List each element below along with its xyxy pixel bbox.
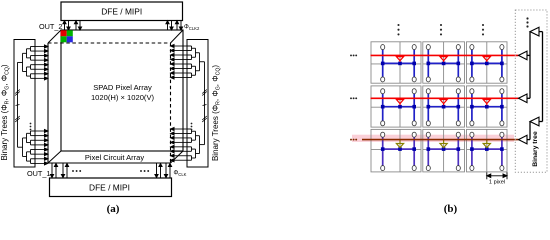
wire left clock line 3 (bottom group) bbox=[35, 139, 48, 142]
svg-text:OUT_2: OUT_2 bbox=[39, 22, 63, 31]
pixel cell r1c3 border bbox=[467, 42, 508, 83]
binary tree group left-bottom bbox=[23, 131, 36, 163]
wire right clock line 6 (top group) bbox=[171, 67, 188, 70]
wire right clock line 4 (bottom group) bbox=[171, 141, 188, 144]
ellipsis column vdots x=441 bbox=[440, 24, 442, 36]
transistor/driver pixel r2c2 triangle bbox=[440, 98, 447, 105]
svg-text:Binary Trees (ΦR, ΦG, ΦCQ): Binary Trees (ΦR, ΦG, ΦCQ) bbox=[211, 65, 222, 161]
wire pixel r1c2 SPAD cathode lines (blue) bbox=[428, 49, 458, 77]
block top DFE/MIPI bbox=[61, 2, 183, 21]
wire pixel r2c2 SPAD cathode lines (blue) bbox=[428, 93, 458, 121]
pixel cell r3c3 border bbox=[467, 129, 508, 172]
wire branch A output to row1/row2 buffers bbox=[527, 32, 530, 99]
wire top-left pair2 up/down arrow pair bbox=[74, 21, 81, 30]
ellipsis left box vdots bbox=[30, 123, 32, 131]
node right trunk break marks bbox=[202, 90, 207, 123]
wire right clock line 8 (top group) bbox=[171, 76, 188, 79]
pixel cell r3c1 border bbox=[371, 129, 421, 172]
wire left clock line 5 (bottom group) bbox=[35, 148, 48, 151]
wire right clock line 2 (top group) bbox=[171, 49, 188, 52]
node pixel r1c3 SPAD terminals (circles) bbox=[470, 45, 504, 82]
wire right clock line 6 (bottom group) bbox=[171, 150, 188, 153]
wire left clock line 6 (bottom group) bbox=[35, 153, 48, 156]
wire branch B output to row3 buffer bbox=[527, 122, 530, 140]
pixel cell r2c3 border bbox=[467, 86, 508, 127]
wire right clock line 1 (bottom group) bbox=[171, 127, 188, 130]
transistor/driver pixel r3c3 triangle bbox=[483, 140, 490, 148]
svg-text:SPAD Pixel Array: SPAD Pixel Array bbox=[93, 83, 152, 92]
wire left tree trunk bbox=[18, 62, 23, 147]
wire left clock line 4 (top group) bbox=[35, 59, 48, 62]
block top wafer SPAD array bbox=[61, 30, 183, 151]
wire right clock line 3 (bottom group) bbox=[171, 136, 188, 139]
svg-text:OUT_1: OUT_1 bbox=[27, 169, 51, 178]
wire left clock line 7 (bottom group) bbox=[35, 157, 48, 160]
svg-text:DFE / MIPI: DFE / MIPI bbox=[89, 182, 130, 192]
block left Binary Trees box bbox=[14, 40, 35, 168]
wire right clock line 1 (top group) bbox=[171, 44, 188, 47]
wire pixel r2c3 SPAD cathode lines (blue) bbox=[472, 93, 502, 121]
svg-text:(a): (a) bbox=[107, 203, 120, 215]
pixel cell r1c2 border bbox=[423, 42, 465, 83]
wire tree trunk vertical bbox=[539, 32, 543, 122]
wire right clock line 3 (top group) bbox=[171, 53, 188, 56]
pixel cell r1c1 border bbox=[371, 42, 421, 83]
wire top-right pair2 up/down arrow pair bbox=[175, 21, 182, 30]
ellipsis right box vdots bbox=[191, 123, 193, 131]
svg-text:ΦCLK2: ΦCLK2 bbox=[184, 24, 200, 31]
wire pixel r1c1 SPAD cathode lines (blue) bbox=[383, 49, 415, 77]
node pixel r3c2 junction dots bbox=[427, 147, 461, 151]
op-amp/buffer mid-level B (row 3) bbox=[530, 117, 539, 126]
wire top-left pair1 up/down arrow pair bbox=[63, 21, 70, 30]
wire red row clock line row1 bbox=[371, 54, 519, 56]
node pixel r3c3 SPAD terminals (circles) bbox=[470, 132, 504, 170]
node pixel r1c2 junction dots bbox=[427, 62, 461, 66]
pixel cell r3c2 border bbox=[423, 129, 465, 172]
wire right clock line 4 (top group) bbox=[171, 58, 188, 61]
wire red row clock line row3 bbox=[362, 139, 519, 141]
node pixel r1c1 junction dots bbox=[381, 62, 416, 66]
binary tree group right-bottom bbox=[187, 129, 200, 160]
node pixel r1c1 SPAD terminals (circles) bbox=[381, 45, 417, 82]
wire left clock line 7 (top group) bbox=[35, 72, 48, 75]
transistor/driver pixel r1c3 triangle bbox=[483, 55, 490, 62]
wire pixel r1c3 SPAD cathode lines (blue) bbox=[472, 49, 502, 77]
pixel cell r2c2 border bbox=[423, 86, 465, 127]
wire right clock line 7 (bottom group) bbox=[171, 154, 188, 157]
wire bottom-left pair2 up/down arrow pair bbox=[61, 164, 68, 178]
wire top-right pair1 up/down arrow pair bbox=[166, 21, 173, 30]
node pixel r2c2 SPAD terminals (circles) bbox=[426, 89, 460, 126]
svg-text:Binary tree: Binary tree bbox=[532, 131, 539, 167]
node pixel r3c1 junction dots bbox=[381, 147, 416, 151]
op-amp/buffer row2 driver U2 bbox=[519, 94, 528, 103]
binary tree group right-top bbox=[187, 46, 200, 78]
node pixel r2c3 SPAD terminals (circles) bbox=[470, 89, 504, 126]
transistor/driver pixel r2c3 triangle bbox=[483, 98, 490, 105]
wire 3D corner diagonals bbox=[48, 30, 183, 163]
wire left clock line 2 (bottom group) bbox=[35, 134, 48, 137]
node pixel r2c3 junction dots bbox=[470, 105, 504, 109]
svg-text:1020(H) × 1020(V): 1020(H) × 1020(V) bbox=[91, 93, 155, 102]
node Bayer pixel (R/G/G/B) bbox=[61, 30, 73, 42]
op-amp/buffer row1 driver U1 bbox=[519, 51, 528, 60]
svg-text:DFE / MIPI: DFE / MIPI bbox=[101, 6, 142, 16]
node pixel r3c3 junction dots bbox=[470, 147, 504, 151]
block Binary tree box (dotted) bbox=[515, 10, 547, 172]
svg-text:(b): (b) bbox=[444, 203, 458, 215]
transistor/driver pixel r1c2 triangle bbox=[440, 55, 447, 62]
wire bottom-right pair2 up/down arrow pair bbox=[164, 164, 171, 178]
wire left clock line 2 (top group) bbox=[35, 49, 48, 52]
svg-text:ΦCLK: ΦCLK bbox=[174, 171, 187, 178]
node pixel r1c2 SPAD terminals (circles) bbox=[426, 45, 460, 82]
ellipsis row1 left bbox=[350, 54, 357, 56]
wire pixel r3c1 SPAD cathode lines (blue) bbox=[383, 137, 415, 166]
block right Binary Trees box bbox=[187, 40, 208, 168]
transistor/driver pixel r3c2 triangle bbox=[440, 140, 447, 148]
block bottom DFE/MIPI bbox=[50, 178, 172, 197]
wire left clock line 4 (bottom group) bbox=[35, 143, 48, 146]
wire pixel r2c1 SPAD cathode lines (blue) bbox=[383, 93, 415, 121]
node pixel r3c1 SPAD terminals (circles) bbox=[381, 132, 417, 170]
pixel cell r2c1 border bbox=[371, 86, 421, 127]
ellipsis column vdots x=483 bbox=[482, 24, 484, 36]
block bottom wafer (pixel circuit chip) bbox=[48, 43, 171, 163]
svg-text:Binary Trees (ΦR, ΦG, ΦCQ): Binary Trees (ΦR, ΦG, ΦCQ) bbox=[0, 64, 11, 160]
wire left clock line 8 (top group) bbox=[35, 77, 48, 80]
node pixel r2c1 SPAD terminals (circles) bbox=[381, 89, 417, 126]
wire left clock line 3 (top group) bbox=[35, 54, 48, 57]
wire bottom-right pair1 up/down arrow pair bbox=[155, 164, 162, 178]
wire right tree trunk bbox=[200, 62, 205, 145]
wire red row clock line row2 bbox=[371, 97, 519, 99]
ellipsis column vdots x=398.5 bbox=[397, 24, 399, 36]
transistor/driver pixel r3c1 triangle bbox=[396, 140, 403, 148]
wire left clock line 5 (top group) bbox=[35, 63, 48, 66]
svg-text:1 pixel: 1 pixel bbox=[489, 180, 505, 186]
wire right clock line 5 (bottom group) bbox=[171, 145, 188, 148]
node pixel r2c2 junction dots bbox=[427, 105, 461, 109]
wire right clock line 8 (bottom group) bbox=[171, 159, 188, 162]
ellipsis row2 left bbox=[350, 97, 357, 99]
ellipsis bottom-left bbox=[72, 170, 81, 172]
wire left clock line 8 (bottom group) bbox=[35, 162, 48, 165]
wire pixel r3c3 SPAD cathode lines (blue) bbox=[472, 137, 502, 166]
wire right clock line 5 (top group) bbox=[171, 62, 188, 65]
transistor/driver pixel r2c1 triangle bbox=[396, 98, 403, 105]
op-amp/buffer mid-level A (rows 1-2) bbox=[530, 27, 539, 36]
wire pixel r3c2 SPAD cathode lines (blue) bbox=[428, 137, 458, 166]
wire left clock line 1 (top group) bbox=[35, 45, 48, 48]
node left trunk break marks bbox=[15, 90, 20, 123]
node pixel r3c2 SPAD terminals (circles) bbox=[426, 132, 460, 170]
node pixel r1c3 junction dots bbox=[470, 62, 504, 66]
node pixel r2c1 junction dots bbox=[381, 105, 416, 109]
wire left clock line 1 (bottom group) bbox=[35, 129, 48, 132]
op-amp/buffer row3 driver U3 bbox=[519, 135, 528, 144]
transistor/driver pixel r1c1 triangle bbox=[396, 55, 403, 62]
wire right clock line 2 (bottom group) bbox=[171, 132, 188, 135]
ellipsis row3 left bbox=[350, 139, 357, 141]
wire right clock line 7 (top group) bbox=[171, 71, 188, 74]
node 1-pixel dimension arrow bbox=[487, 172, 507, 179]
ellipsis bottom-right bbox=[140, 170, 149, 172]
wire bottom-left pair1 up/down arrow pair bbox=[50, 164, 57, 178]
wire left clock line 6 (top group) bbox=[35, 68, 48, 71]
ellipsis binary tree vdots bbox=[526, 17, 528, 27]
svg-text:Pixel Circuit Array: Pixel Circuit Array bbox=[85, 153, 144, 162]
binary tree group left-top bbox=[23, 47, 36, 79]
node selected-row highlight band bbox=[352, 135, 514, 142]
